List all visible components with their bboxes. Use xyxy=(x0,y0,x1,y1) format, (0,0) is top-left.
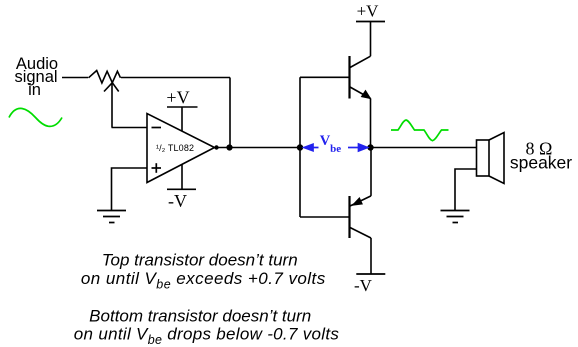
wire: wiper to op-amp inverting input xyxy=(112,127,148,129)
wire: bottom transistor base xyxy=(300,216,349,218)
op-amp -V supply xyxy=(167,165,196,190)
svg-text:+V: +V xyxy=(357,2,380,21)
annotation: bottom transistor note xyxy=(74,307,340,347)
transistor Q2 (PNP) xyxy=(350,196,372,238)
op-amp inverting input symbol xyxy=(152,127,162,129)
-V supply rail (bottom) xyxy=(356,273,385,275)
potentiometer R1 zigzag xyxy=(89,71,121,84)
svg-text:speaker: speaker xyxy=(510,153,572,173)
wire: output to speaker xyxy=(371,147,477,149)
wire: Q2 emitter to output node xyxy=(370,148,372,196)
ground (speaker) xyxy=(441,211,470,223)
label Vbe (blue) with arrows xyxy=(320,133,342,155)
wire: feedback vertical xyxy=(229,78,231,148)
wire: top transistor base xyxy=(300,76,349,78)
svg-text:in: in xyxy=(28,81,41,99)
wire: transistor base bus vertical xyxy=(299,77,301,217)
label: Audio signal in xyxy=(14,55,58,99)
svg-text:Bottom transistor doesn’t turn: Bottom transistor doesn’t turn xyxy=(89,307,311,326)
op-amp +V supply xyxy=(167,107,198,131)
wire: op-amp output xyxy=(215,147,301,149)
wire: pot to feedback corner xyxy=(121,77,230,79)
node: base bus junction xyxy=(297,144,303,150)
op-amp U1 triangle xyxy=(147,114,215,183)
wire: input to potentiometer xyxy=(62,77,88,79)
+V supply rail (top) xyxy=(356,21,385,23)
svg-text:Vbe: Vbe xyxy=(320,133,342,155)
wire: Q2 collector to -V xyxy=(370,238,372,274)
svg-text:Top transistor doesn’t turn: Top transistor doesn’t turn xyxy=(102,251,298,270)
output sine wave with crossover distortion (green) xyxy=(391,120,449,141)
node: op-amp apex output xyxy=(214,145,218,149)
wire: speaker bottom terminal to ground xyxy=(455,169,477,210)
annotation: top transistor note xyxy=(81,251,326,292)
svg-text:-V: -V xyxy=(168,191,187,211)
svg-text:-V: -V xyxy=(354,276,373,295)
op-amp noninverting input symbol xyxy=(152,163,162,173)
svg-text:+V: +V xyxy=(166,88,189,108)
svg-text:¹/₂ TL082: ¹/₂ TL082 xyxy=(156,143,194,153)
svg-text:on until Vbe drops below -0.7: on until Vbe drops below -0.7 volts xyxy=(74,325,340,347)
input sine wave (green) xyxy=(9,108,62,126)
potentiometer wiper arrow xyxy=(104,83,119,128)
wire: op-amp noninverting input to ground xyxy=(112,168,148,210)
wire: Q1 collector to +V xyxy=(370,22,372,56)
wire: Q1 emitter to output node xyxy=(370,99,372,148)
svg-text:on until Vbe exceeds +0.7 volt: on until Vbe exceeds +0.7 volts xyxy=(81,269,326,292)
speaker LS1 xyxy=(477,133,505,184)
ground (op-amp noninverting input) xyxy=(97,211,126,223)
node: op-amp output / feedback junction xyxy=(226,144,232,150)
node: output junction xyxy=(367,144,373,150)
transistor Q1 (NPN) xyxy=(350,56,371,99)
